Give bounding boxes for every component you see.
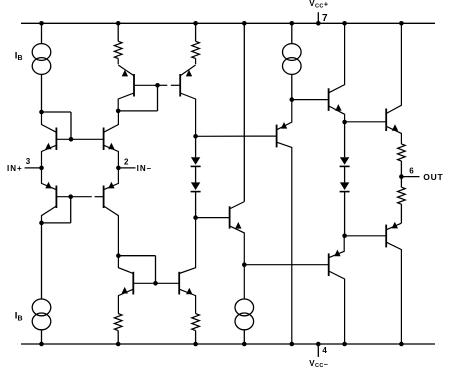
wire B2 to mirror base drop: [118, 255, 155, 257]
transistor Q12 bar: [178, 272, 180, 295]
node base junction Q5Q6: [155, 83, 160, 88]
node rail-D top: [242, 21, 247, 26]
transistor Q9 base lead: [196, 135, 277, 137]
node OUT junction: [399, 174, 404, 179]
transistor Q7 bar: [328, 88, 330, 111]
svg-text:3: 3: [26, 157, 31, 166]
transistor Q8 emitter lead: [386, 126, 401, 144]
svg-text:6: 6: [409, 166, 414, 175]
node C2 diode bottom: [193, 215, 198, 220]
transistor Q2 emitter lead: [104, 145, 119, 168]
transistor Q8 collector lead: [386, 23, 401, 113]
transistor Q6 bar: [179, 74, 181, 97]
svg-text:7: 7: [322, 13, 328, 24]
wire I2 to node E1: [291, 74, 293, 99]
wire mirror base drop: [155, 256, 157, 284]
wire OUT node to R4: [400, 177, 402, 188]
transistor Q4 collector lead: [104, 206, 119, 256]
transistor Q9 bar: [276, 125, 278, 148]
node rail-E top: [290, 21, 295, 26]
transistor Q4 emitter arrow: [108, 182, 114, 189]
transistor Q3 emitter lead: [42, 168, 57, 190]
transistor Q5 collector lead: [118, 93, 134, 111]
node rail-F bottom: [342, 342, 347, 347]
transistor Q13 bar: [328, 253, 330, 276]
node base junction Q1Q2: [69, 137, 74, 142]
transistor Q3 bar: [55, 186, 57, 209]
wire IN- lead: [118, 167, 135, 169]
resistor R1: [114, 41, 122, 58]
wire top rail Vcc+: [21, 22, 435, 24]
wire I4 to rail: [243, 330, 245, 344]
svg-text:IN–: IN–: [137, 164, 152, 173]
node B1 mirror tie: [116, 109, 121, 114]
transistor Q9 collector lead: [277, 142, 292, 344]
transistor Q2 emitter arrow: [108, 143, 114, 150]
wire node A2 to I3: [41, 223, 43, 299]
current source I4: [235, 299, 254, 316]
transistor Q4 emitter lead: [104, 168, 119, 190]
transistor Q7 emitter lead: [329, 106, 345, 122]
wire rail to I2: [291, 23, 293, 43]
svg-text:2: 2: [124, 157, 129, 166]
diode D1: [191, 157, 200, 165]
current source I1: [32, 44, 51, 61]
transistor Q1 collector lead: [42, 112, 57, 132]
node F1 output bias top: [342, 120, 347, 125]
transistor Q10 bar: [229, 206, 231, 228]
node C1 diode top: [193, 134, 198, 139]
wire rail to R2: [195, 23, 197, 41]
node rail-D bottom: [242, 342, 247, 347]
node A1: [39, 110, 44, 115]
wire down to base junction: [70, 112, 72, 139]
wire rail to R1: [117, 23, 119, 41]
wire F1 to D3: [344, 122, 346, 157]
wire base junction down: [157, 85, 159, 111]
node D1 base tap: [242, 262, 247, 267]
pin 4 stub: [317, 344, 319, 357]
wire D1 to D2: [195, 166, 197, 182]
transistor Q5 base lead: [134, 84, 158, 86]
transistor Q12 collector lead: [179, 218, 195, 274]
wire B1 to base drop: [118, 110, 157, 112]
transistor Q6 collector lead: [180, 93, 195, 136]
wire R6 to rail: [195, 331, 197, 344]
node IN+ junction: [39, 166, 44, 171]
transistor Q11 emitter arrow: [122, 287, 128, 294]
current source I3: [32, 299, 51, 316]
transistor Q13 base lead: [244, 264, 328, 266]
transistor Q6 emitter arrow: [186, 70, 192, 77]
node rail-C top: [193, 21, 198, 26]
transistor Q10 base lead: [196, 217, 230, 219]
resistor R6: [192, 314, 200, 331]
wire D2 to node C2: [195, 192, 197, 218]
transistor Q9 emitter lead: [277, 100, 292, 130]
transistor Q1 base lead: [56, 138, 103, 140]
transistor Q6 base lead: [158, 84, 168, 86]
transistor Q11 base lead: [133, 282, 179, 284]
wire OUT lead: [401, 176, 419, 178]
transistor Q5 emitter lead: [118, 65, 134, 76]
svg-text:IN+: IN+: [7, 164, 23, 173]
node rail-A bottom: [39, 342, 44, 347]
transistor Q12 emitter lead: [179, 289, 195, 313]
transistor Q8 base lead: [345, 121, 387, 123]
transistor Q5 emitter arrow: [122, 70, 128, 77]
transistor Q8 bar: [385, 109, 387, 132]
transistor Q4 bar: [103, 186, 105, 209]
transistor Q14 collector lead: [386, 242, 401, 344]
transistor Q1 emitter lead: [42, 145, 57, 168]
node pin4: [316, 342, 321, 347]
transistor Q11 bar: [132, 272, 134, 295]
wire R5 to rail: [117, 331, 119, 344]
transistor Q7 base lead: [292, 99, 329, 101]
diode D2: [191, 182, 200, 190]
transistor Q7 emitter arrow: [335, 104, 341, 111]
wire long vertical colD: [243, 23, 245, 201]
transistor Q2 collector lead: [104, 111, 119, 132]
diode D4: [340, 182, 349, 190]
wire D3 to D4: [344, 166, 346, 182]
node base junction Q11Q12: [153, 281, 158, 286]
wire I3 to rail: [41, 330, 43, 344]
transistor Q1 emitter arrow: [45, 143, 51, 150]
transistor Q2 bar: [103, 128, 105, 151]
transistor Q9 emitter arrow: [281, 122, 287, 129]
node rail-G bottom: [399, 342, 404, 347]
resistor R2: [192, 41, 200, 58]
transistor Q1 bar: [55, 128, 57, 151]
wire R4 to Q14 emitter: [400, 204, 402, 223]
transistor Q13 emitter lead: [329, 236, 345, 258]
node rail-C bottom: [193, 342, 198, 347]
transistor Q11 collector lead: [118, 256, 133, 274]
diode D3: [340, 157, 349, 165]
current source I2: [283, 44, 302, 61]
transistor Q11 emitter lead: [118, 289, 133, 313]
svg-text:OUT: OUT: [423, 172, 443, 182]
wire bottom rail Vcc-: [21, 343, 435, 345]
wire R1 to Q5 emitter: [117, 59, 119, 65]
node base junction Q3Q4: [68, 194, 73, 199]
node A2 collector-base tie: [39, 221, 44, 226]
wire node A1 to base column: [42, 111, 72, 113]
wire R3 to OUT node: [400, 161, 402, 177]
node rail-B top: [116, 21, 121, 26]
transistor Q14 base lead: [345, 235, 387, 237]
wire I1 to node A1: [41, 74, 43, 112]
wire rail to I1: [41, 23, 43, 43]
transistor Q14 emitter arrow: [392, 222, 398, 229]
transistor Q14 emitter lead: [386, 223, 401, 230]
transistor Q6 emitter lead: [180, 65, 195, 76]
node rail-G top: [399, 21, 404, 26]
wire R2 to Q6 emitter: [195, 59, 197, 65]
transistor Q13 emitter arrow: [334, 250, 340, 257]
resistor R4: [398, 187, 406, 204]
node F2 output bias bottom: [342, 234, 347, 239]
wire C1 to D1: [195, 136, 197, 157]
node E1: [290, 97, 295, 102]
node rail-F top: [342, 21, 347, 26]
resistor R5: [114, 314, 122, 331]
transistor Q10 collector lead: [230, 202, 245, 209]
transistor Q3 emitter arrow: [45, 182, 51, 189]
transistor Q3 collector lead: [42, 206, 57, 223]
transistor Q3 base lead: [56, 196, 91, 198]
transistor Q5 bar: [133, 74, 135, 97]
wire D4 to node F2: [344, 192, 346, 236]
node rail-B bottom: [116, 342, 121, 347]
transistor Q10 emitter lead: [230, 226, 245, 299]
pin 7 stub: [317, 12, 319, 23]
transistor Q8 emitter arrow: [392, 124, 398, 131]
transistor Q14 bar: [385, 225, 387, 248]
node pin7: [316, 21, 321, 26]
node rail-A top: [39, 21, 44, 26]
wire base junction down: [70, 197, 72, 223]
wire to node A2: [42, 222, 71, 224]
transistor Q7 collector lead: [329, 23, 345, 93]
transistor Q10 emitter arrow: [235, 222, 241, 229]
svg-text:4: 4: [322, 346, 327, 355]
wire IN+ lead: [25, 167, 42, 169]
wire Q4 collector to mirror: [116, 253, 121, 258]
node rail-E bottom: [290, 342, 295, 347]
transistor Q12 emitter arrow: [186, 288, 192, 295]
resistor R3: [398, 144, 406, 161]
node IN- junction: [116, 166, 121, 171]
transistor Q13 collector lead: [329, 271, 345, 344]
